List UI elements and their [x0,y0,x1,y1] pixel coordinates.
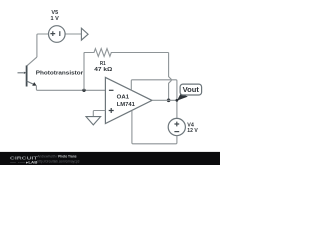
emitter diagonal [27,81,35,85]
svg-text:http://circuitlab.com/c/maycp3: http://circuitlab.com/c/maycp3 [37,159,79,163]
wire emitter to op-amp minus input [36,86,105,91]
svg-text:V5: V5 [51,10,58,16]
voltage source V5 [49,26,66,43]
node output junction small dot [176,99,179,102]
wire V4 bottom to VS- pin [132,111,177,144]
op-amp OA1 [105,77,152,123]
svg-text:— ·—: — ·— [10,160,26,164]
wire V5 right to arrow [65,33,81,35]
resistor R1 [84,49,169,57]
svg-text:AndrewKeith / Photo Trans: AndrewKeith / Photo Trans [37,155,76,159]
wire output node to V4 top [176,100,178,118]
node junction dot output [167,99,171,103]
ground [86,117,101,125]
wire R1 branch vertical [83,53,85,91]
wire feedback vertical with hop [169,53,172,101]
wire VS+ pin to output node [131,80,177,101]
footer bar [0,152,220,165]
svg-text:12 V: 12 V [187,128,198,134]
wire collector diagonal [27,57,37,66]
flag Vout [177,84,202,101]
svg-text:Phototransistor: Phototransistor [36,70,84,76]
base bar [26,66,28,87]
light arrow [18,72,24,74]
wire V5 left to phototransistor collector [37,34,49,57]
wire plus input to ground [93,111,105,117]
svg-text:47 kΩ: 47 kΩ [94,67,112,73]
svg-text:1 V: 1 V [51,16,59,22]
node junction dot A [82,89,85,92]
phototransistor Q1 [18,66,37,87]
svg-text:Vout: Vout [183,87,200,94]
node arrow (net pointer) [81,28,88,40]
wire op-amp output [152,99,177,101]
voltage source V4 [168,118,185,135]
svg-text:LM741: LM741 [117,102,136,108]
emitter arrowhead [32,82,36,86]
svg-text:▸LAB: ▸LAB [25,161,38,165]
svg-text:OA1: OA1 [117,95,130,101]
